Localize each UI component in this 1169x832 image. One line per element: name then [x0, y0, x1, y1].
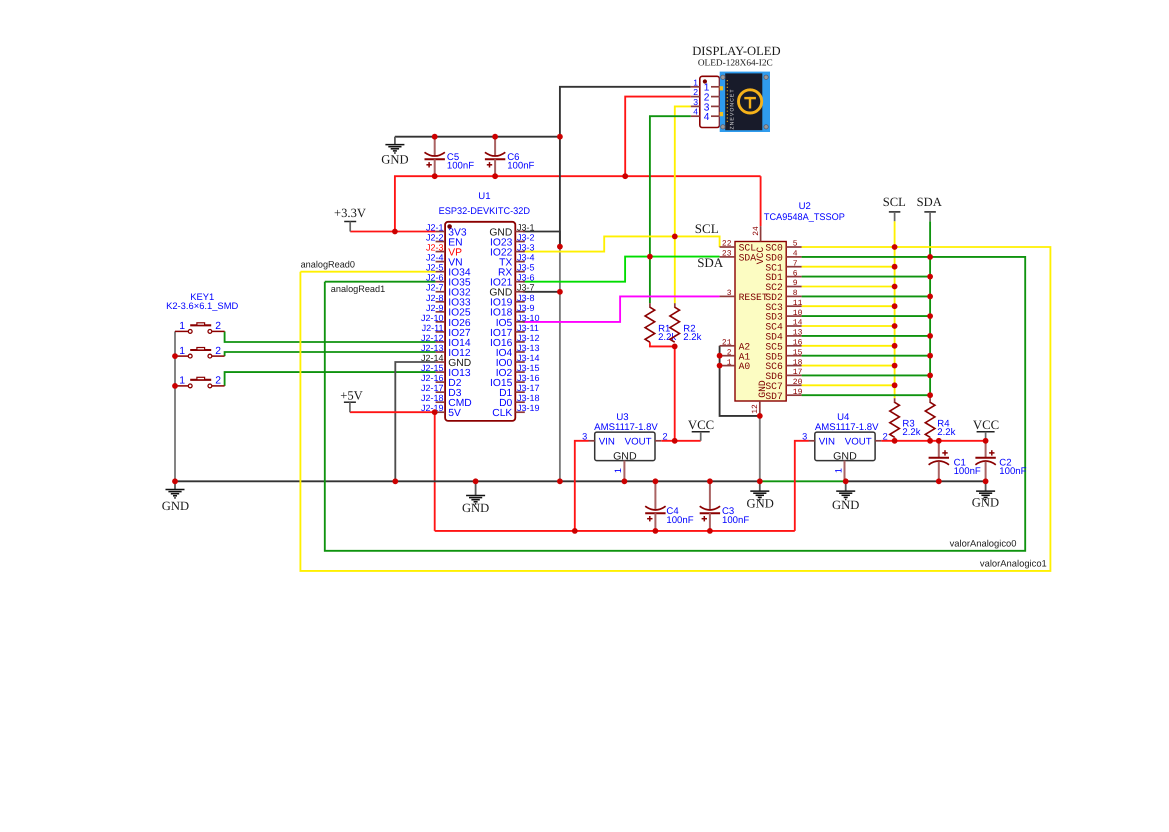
U1 pin J3-4 TX — [499, 253, 534, 269]
regulator U3 AMS1117-1.8V — [582, 412, 668, 481]
wire SD7 to SDA rail — [802, 394, 931, 396]
U1 pin J2-2 EN — [426, 233, 463, 249]
svg-text:J3-14: J3-14 — [517, 353, 540, 363]
svg-text:100nF: 100nF — [954, 466, 981, 477]
U1 pin J2-5 IO34 — [426, 263, 471, 279]
junction SCL vertical — [672, 234, 678, 240]
svg-text:J2-7: J2-7 — [426, 283, 444, 293]
svg-text:J2-10: J2-10 — [421, 313, 444, 323]
svg-text:17: 17 — [793, 368, 803, 377]
junction 5V drop — [432, 409, 438, 415]
capacitor C6 100nF — [485, 137, 535, 177]
svg-text:J2-15: J2-15 — [421, 363, 444, 373]
wire U3 VOUT to VCC — [661, 440, 700, 442]
wire SC1 to SCL rail — [802, 266, 895, 268]
svg-text:2: 2 — [215, 321, 221, 332]
svg-text:GND: GND — [972, 496, 999, 510]
U1 pin J2-6 IO35 — [426, 273, 471, 289]
svg-text:5: 5 — [793, 240, 798, 249]
net flag SCL — [883, 195, 906, 221]
U2 pin 2 A1 — [720, 348, 751, 362]
wire R1 R2 bottom link — [650, 342, 675, 346]
U1 pin J3-17 D1 — [499, 383, 539, 399]
wire SD6 to SDA rail — [802, 374, 931, 376]
svg-text:100nF: 100nF — [507, 161, 534, 172]
svg-text:J3-19: J3-19 — [517, 403, 540, 413]
svg-text:GND: GND — [757, 380, 768, 398]
svg-text:CLK: CLK — [492, 408, 512, 419]
svg-text:24: 24 — [752, 226, 761, 236]
U1 pin J3-6 IO21 — [490, 273, 535, 289]
wire J3-7 GND — [523, 291, 560, 293]
svg-text:J3-8: J3-8 — [517, 293, 535, 303]
svg-text:VCC: VCC — [755, 247, 766, 265]
svg-text:AMS1117-1.8V: AMS1117-1.8V — [594, 422, 658, 433]
wire SDA rail — [929, 221, 931, 398]
svg-text:J3-6: J3-6 — [517, 273, 535, 283]
IC U2 TCA9548A_TSSOP — [735, 201, 845, 401]
U1 pin J2-7 IO32 — [426, 283, 471, 299]
svg-text:GND: GND — [462, 501, 489, 515]
svg-text:3: 3 — [727, 289, 732, 298]
svg-text:J2-16: J2-16 — [421, 373, 444, 383]
junction U4 GND pin — [843, 478, 849, 484]
power flag VCC U4 — [973, 418, 999, 441]
svg-text:4: 4 — [704, 112, 710, 123]
svg-text:15: 15 — [793, 348, 803, 357]
U1 pin J3-11 IO17 — [490, 323, 539, 339]
svg-text:analogRead1: analogRead1 — [331, 284, 385, 294]
svg-text:J3-7: J3-7 — [517, 283, 535, 293]
svg-text:GND: GND — [381, 152, 408, 166]
wire SD5 to SDA rail — [802, 355, 931, 357]
svg-text:GND: GND — [162, 499, 189, 513]
svg-text:2: 2 — [727, 348, 732, 357]
svg-text:1: 1 — [833, 468, 843, 473]
U1 pin J2-17 D3 — [421, 383, 462, 399]
junction C3 top — [707, 478, 713, 484]
junction pin12 — [757, 413, 763, 419]
svg-text:J2-11: J2-11 — [422, 323, 444, 333]
svg-text:100nF: 100nF — [722, 515, 749, 526]
svg-text:13: 13 — [793, 329, 803, 338]
wire SC3 to SCL rail — [802, 305, 895, 307]
svg-text:16: 16 — [793, 339, 803, 348]
wire SD0 to valorAnalogico0 loop — [325, 257, 1025, 551]
svg-text:J3-9: J3-9 — [517, 303, 535, 313]
junction C2 top VCC — [983, 438, 989, 444]
junction C4 top — [653, 478, 659, 484]
svg-text:J3-5: J3-5 — [517, 263, 535, 273]
svg-text:J2-13: J2-13 — [421, 343, 444, 353]
svg-text:VIN: VIN — [599, 437, 615, 448]
svg-text:ESP32-DEVKITC-32D: ESP32-DEVKITC-32D — [439, 206, 530, 217]
U2 pin 19 SD7 — [765, 388, 802, 402]
wire KEY1-2 to J2-13 — [225, 352, 436, 356]
junction SCL rail SC4 — [892, 323, 898, 329]
svg-text:1: 1 — [179, 346, 185, 357]
svg-text:VOUT: VOUT — [845, 437, 872, 448]
U1 pin J2-11 IO27 — [422, 323, 471, 339]
U2 pin 21 A2 — [720, 339, 751, 353]
svg-text:10: 10 — [793, 309, 803, 318]
U1 pin J3-12 IO16 — [490, 333, 540, 349]
junction C6 top — [492, 134, 498, 140]
U1 pin J3-2 IO23 — [490, 233, 535, 249]
junction U3 VIN riser — [572, 528, 578, 534]
U1 pin J3-18 D0 — [499, 393, 539, 409]
U2 pin 10 SD3 — [765, 309, 802, 323]
junction 3V3 / OLED pin2 drop — [622, 173, 628, 179]
U2 pin 11 SC3 — [765, 299, 802, 313]
svg-text:4: 4 — [693, 107, 698, 117]
ground U4 — [832, 481, 859, 512]
U1 pin J2-9 IO25 — [426, 303, 471, 319]
svg-text:SCL: SCL — [883, 195, 906, 209]
capacitor C4 100nF — [645, 481, 694, 531]
wire OLED pin3 (SCL net) — [675, 106, 691, 303]
U2 pin 5 SC0 — [765, 240, 801, 254]
capacitor C3 100nF — [700, 481, 750, 531]
wire +5V to J2-19 — [350, 411, 436, 413]
junction A1 — [717, 353, 723, 359]
U1 pin J2-4 VN — [426, 253, 463, 269]
U2 pin 17 SD6 — [765, 368, 802, 382]
svg-text:analogRead0: analogRead0 — [301, 259, 355, 269]
svg-text:100nF: 100nF — [666, 515, 693, 526]
junction C4 bottom — [653, 528, 659, 534]
svg-text:OLED-128X64-I2C: OLED-128X64-I2C — [698, 58, 773, 68]
wire U2 VCC pin24 — [760, 176, 762, 226]
svg-text:J3-18: J3-18 — [517, 393, 540, 403]
svg-text:3: 3 — [582, 432, 587, 442]
junction C3 bottom — [707, 528, 713, 534]
wire GND drop to bottom bus — [559, 247, 561, 482]
U1 pin J3-15 IO2 — [496, 363, 540, 379]
U1 pin J3-5 RX — [498, 263, 535, 279]
wire analogRead1 to J2-6 — [325, 281, 436, 283]
U2 pin 8 SD2 — [765, 289, 801, 303]
junction 3V3/J2-1 — [392, 229, 398, 235]
svg-text:J3-17: J3-17 — [517, 383, 540, 393]
resistor R1 2.2k — [645, 307, 676, 343]
svg-text:21: 21 — [722, 339, 732, 348]
svg-text:VCC: VCC — [688, 418, 714, 432]
U1 pin J3-13 IO4 — [496, 343, 540, 359]
junction SCL rail SC7 — [892, 382, 898, 388]
ground U2 — [747, 481, 774, 510]
junction SCL rail SC6 — [892, 363, 898, 369]
wire U4 VIN riser — [795, 441, 809, 531]
capacitor C5 100nF — [425, 137, 475, 177]
junction KEY1-3 — [172, 383, 178, 389]
svg-text:U1: U1 — [478, 191, 490, 202]
svg-text:valorAnalogico1: valorAnalogico1 — [980, 558, 1047, 568]
svg-text:AMS1117-1.8V: AMS1117-1.8V — [815, 422, 879, 433]
wire analogRead0 to J2-5 — [300, 271, 435, 273]
wire SD3 to SDA rail — [802, 315, 931, 317]
connector DISPLAY-OLED header — [692, 44, 780, 128]
wire KEY1-1 to J2-12 — [225, 331, 436, 342]
U1 pin J2-8 IO33 — [426, 293, 471, 309]
wire +3.3V to U1 pin J2-1 — [350, 231, 435, 233]
wire SC7 to SCL rail — [802, 384, 895, 386]
junction GND KEY1 — [172, 478, 178, 484]
junction C2 bottom — [983, 478, 989, 484]
svg-text:1: 1 — [727, 358, 732, 367]
junction SCL rail SC3 — [892, 303, 898, 309]
junction U3 GND pin — [622, 478, 628, 484]
wire 5V drop to red bus — [434, 412, 436, 531]
svg-text:14: 14 — [793, 319, 803, 328]
svg-text:2: 2 — [215, 376, 221, 387]
net flag SDA — [917, 195, 942, 221]
U2 pin 22 SCL — [720, 240, 757, 254]
junction SCL rail SC2 — [892, 284, 898, 290]
resistor R3 2.2k — [890, 402, 921, 438]
U2 pin 3 RESET — [720, 289, 768, 303]
wire SD2 to SDA rail — [802, 295, 931, 297]
svg-text:J3-2: J3-2 — [517, 233, 535, 243]
wire SCL rail — [894, 221, 896, 398]
junction SCL rail SC1 — [892, 264, 898, 270]
wire GND bottom bus — [175, 480, 760, 482]
switch KEY1 pole 2 — [175, 346, 225, 358]
junction R1R2 drop — [672, 438, 678, 444]
svg-text:1: 1 — [179, 321, 185, 332]
U1 pin J3-3 IO22 — [490, 243, 535, 259]
junction GND mid symbol — [473, 478, 479, 484]
wire J3-6 SDA — [523, 257, 720, 282]
capacitor C2 100nF — [975, 441, 1026, 482]
svg-text:SDA: SDA — [917, 195, 942, 209]
connector pin 4 — [691, 107, 721, 123]
junction R1R2 bottom — [672, 344, 678, 350]
junction SCL rail SC5 — [892, 343, 898, 349]
wire OLED pin1 (GND net) — [560, 87, 691, 247]
svg-text:J2-6: J2-6 — [426, 273, 444, 283]
svg-text:J3-11: J3-11 — [517, 323, 539, 333]
svg-text:valorAnalogico0: valorAnalogico0 — [950, 539, 1017, 549]
wire J3-3 SCL — [523, 236, 720, 251]
wire 5V red bus — [435, 530, 795, 532]
switch KEY1 K2-3.6x6.1_SMD — [166, 291, 238, 311]
junction SDA rail SD3 — [927, 313, 933, 319]
svg-text:J2-12: J2-12 — [421, 333, 444, 343]
U1 pin J2-18 CMD — [421, 393, 472, 409]
U1 pin J2-1 3V3 — [426, 223, 467, 239]
svg-text:VCC: VCC — [973, 418, 999, 432]
junction R3 bottom — [892, 438, 898, 444]
ground right — [972, 481, 999, 509]
svg-text:J2-18: J2-18 — [421, 393, 444, 403]
svg-text:J2-5: J2-5 — [426, 263, 444, 273]
svg-text:J2-14: J2-14 — [421, 353, 444, 363]
junction U2 GND drop — [757, 478, 763, 484]
svg-text:VIN: VIN — [819, 437, 835, 448]
svg-text:2: 2 — [215, 346, 221, 357]
svg-text:100nF: 100nF — [447, 161, 474, 172]
wire R1R2 bottom to VCC — [674, 346, 676, 440]
U1 pin J3-9 IO18 — [490, 303, 535, 319]
power flag +5V — [340, 389, 363, 413]
wire KEY1-3 to J2-15 — [225, 372, 436, 386]
regulator U4 AMS1117-1.8V — [802, 412, 888, 481]
junction SDA rail SD7 — [927, 392, 933, 398]
wire GND top bus — [395, 136, 560, 138]
svg-text:2.2k: 2.2k — [937, 427, 955, 438]
svg-text:3: 3 — [693, 97, 698, 107]
svg-text:+3.3V: +3.3V — [334, 206, 366, 220]
U2 pin 12 GND — [751, 380, 768, 416]
IC U1 ESP32-DEVKITC-32D — [439, 191, 530, 421]
svg-text:DISPLAY-OLED: DISPLAY-OLED — [692, 44, 780, 58]
U2 pin 18 SC6 — [765, 358, 802, 372]
junction SDA vertical — [647, 254, 653, 260]
junction SDA rail SD6 — [927, 373, 933, 379]
U1 pin J3-10 IO5 — [496, 313, 540, 329]
OLED module graphic — [720, 72, 770, 132]
svg-text:SDA: SDA — [739, 253, 757, 264]
svg-text:J2-3: J2-3 — [426, 243, 444, 253]
junction C5 bottom — [432, 173, 438, 179]
wire J2-14 GND to bottom bus — [395, 362, 435, 481]
wire 3V3 top bus — [395, 176, 761, 231]
wire J3-10 to RESET — [523, 296, 720, 322]
svg-text:6: 6 — [793, 269, 798, 278]
svg-text:8: 8 — [793, 289, 798, 298]
junction C1 bottom — [936, 478, 942, 484]
U1 pin J3-19 CLK — [492, 403, 539, 419]
junction C5 top — [432, 134, 438, 140]
connector pin 3 — [691, 97, 721, 113]
resistor R2 2.2k — [670, 307, 702, 343]
svg-text:18: 18 — [793, 358, 803, 367]
U1 pin J2-12 IO14 — [421, 333, 471, 349]
svg-text:2: 2 — [663, 432, 668, 442]
U2 pin 13 SD4 — [765, 329, 802, 343]
svg-text:J2-9: J2-9 — [426, 303, 444, 313]
wire SC2 to SCL rail — [802, 286, 895, 288]
U1 pin J3-14 IO0 — [496, 353, 540, 369]
junction C6 bottom — [492, 173, 498, 179]
U1 pin J3-7 GND — [489, 283, 534, 299]
svg-text:2.2k: 2.2k — [683, 332, 701, 343]
junction SDA rail SD2 — [927, 294, 933, 300]
U2 pin 1 A0 — [720, 358, 751, 372]
wire GND bottom bus green segment — [760, 480, 846, 482]
wire OLED pin2 (3V3 net) — [625, 97, 691, 177]
svg-text:1: 1 — [179, 376, 185, 387]
switch KEY1 pole 1 — [175, 321, 225, 333]
U1 pin J2-14 GND — [421, 353, 471, 369]
svg-text:J3-16: J3-16 — [517, 373, 540, 383]
svg-text:23: 23 — [722, 250, 732, 259]
svg-text:SCL: SCL — [695, 221, 719, 236]
svg-text:VOUT: VOUT — [625, 437, 652, 448]
svg-text:9: 9 — [793, 279, 798, 288]
ground top-left — [381, 137, 408, 167]
junction SDA rail SD4 — [927, 333, 933, 339]
svg-text:J2-17: J2-17 — [421, 383, 444, 393]
svg-text:J2-1: J2-1 — [426, 223, 444, 233]
U2 pin 24 VCC — [752, 226, 766, 264]
connector pin 1 — [691, 77, 721, 93]
wire OLED pin4 (SDA net) — [650, 116, 691, 303]
ground middle — [462, 481, 489, 515]
svg-text:2: 2 — [693, 87, 698, 97]
svg-text:J3-1: J3-1 — [517, 223, 535, 233]
junction SDA rail SD1 — [927, 274, 933, 280]
power flag +3.3V — [334, 206, 366, 232]
U2 pin 15 SD5 — [765, 348, 802, 362]
U1 pin J3-1 GND — [489, 223, 534, 239]
wire KEY1 common rail — [174, 331, 176, 481]
svg-text:J2-4: J2-4 — [426, 253, 444, 263]
U1 pin J2-16 D2 — [421, 373, 462, 389]
wire U2 A2 A1 A0 strap — [720, 346, 760, 416]
wire SD1 to SDA rail — [802, 276, 931, 278]
svg-text:1: 1 — [613, 468, 623, 473]
U1 pin J2-3 VP — [426, 243, 462, 259]
U2 pin 7 SC1 — [765, 259, 801, 273]
svg-text:K2-3.6×6.1_SMD: K2-3.6×6.1_SMD — [166, 300, 238, 311]
svg-text:ZNEVONCET: ZNEVONCET — [730, 89, 736, 130]
svg-text:7: 7 — [793, 259, 798, 268]
svg-text:J3-3: J3-3 — [517, 243, 535, 253]
resistor R4 2.2k — [925, 402, 955, 438]
svg-text:J2-2: J2-2 — [426, 233, 444, 243]
svg-text:3: 3 — [802, 432, 807, 442]
junction J3-7 GND — [557, 289, 563, 295]
ground KEY1 — [162, 481, 189, 513]
svg-text:J3-4: J3-4 — [517, 253, 535, 263]
U1 pin J2-19 5V — [421, 403, 461, 419]
junction SDA rail SD5 — [927, 353, 933, 359]
svg-text:2.2k: 2.2k — [902, 427, 920, 438]
capacitor C1 100nF — [929, 441, 981, 482]
svg-text:100nF: 100nF — [999, 466, 1026, 477]
svg-text:5V: 5V — [448, 408, 461, 419]
svg-text:19: 19 — [793, 388, 803, 397]
junction KEY1-2 — [172, 353, 178, 359]
wire SD4 to SDA rail — [802, 335, 931, 337]
U1 pin J3-8 IO19 — [490, 293, 535, 309]
junction GND bus / OLED pin1 drop — [557, 134, 563, 140]
wire SC5 to SCL rail — [802, 345, 895, 347]
wire U4 VOUT to VCC — [881, 440, 985, 442]
svg-text:J2-8: J2-8 — [426, 293, 444, 303]
junction A0 — [717, 363, 723, 369]
svg-text:U2: U2 — [799, 201, 811, 212]
junction GND drop — [557, 478, 563, 484]
wire SC6 to SCL rail — [802, 365, 895, 367]
svg-text:RESET: RESET — [739, 292, 768, 303]
svg-text:A0: A0 — [739, 361, 751, 372]
junction SDA rail SD0 — [927, 254, 933, 260]
U1 pin J2-15 IO13 — [421, 363, 471, 379]
svg-text:GND: GND — [747, 497, 774, 511]
svg-text:22: 22 — [722, 240, 732, 249]
wire GND bottom bus right — [846, 480, 986, 482]
wire SC0 to valorAnalogico1 loop — [300, 247, 1050, 571]
junction C1 top — [936, 438, 942, 444]
U1 pin J2-13 IO12 — [421, 343, 471, 359]
junction GND drop — [557, 244, 563, 250]
svg-text:J3-13: J3-13 — [517, 343, 540, 353]
junction R4 bottom — [927, 438, 933, 444]
power flag VCC U3 — [688, 418, 714, 441]
